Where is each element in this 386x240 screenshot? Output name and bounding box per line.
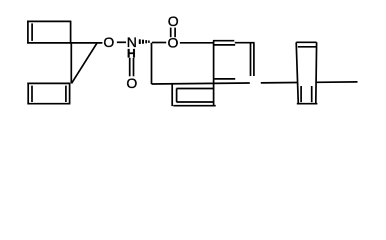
benzene right: top edge: [296, 41, 316, 43]
double bond C=O carbonyl: [170, 28, 172, 38]
benzene right: right edge: [315, 42, 318, 103]
cyclobutene ring top-left: left edge: [27, 21, 29, 43]
benzene right: inner top double line: [298, 46, 316, 48]
chemical structure drawing 386x124: [0, 0, 386, 124]
double bond inner right line, bottom-left ring: [65, 86, 67, 102]
bond stereocenter to ester O: [152, 42, 166, 44]
svg-text:O: O: [103, 34, 114, 50]
cyclobutadiene ring bottom-left: right edge: [69, 83, 71, 105]
wire diagonal bond: [72, 43, 97, 83]
wire long horizontal segment 3: [317, 81, 358, 83]
benzene right: left edge: [296, 42, 298, 103]
benzene right: inner vertical left: [300, 86, 302, 102]
double bond top line, middle ring: [213, 40, 234, 42]
double bond second line, middle ring: [214, 44, 235, 46]
cyclobutene ring top-left: right edge: [70, 21, 72, 43]
benzene right: bottom edge: [297, 103, 318, 105]
bond O1 to N: [117, 41, 126, 43]
wire long horizontal segment 2: [261, 82, 298, 84]
outer bottom line, bottom-middle ring: [173, 105, 215, 107]
cyclobutadiene ring bottom-left: top edge: [27, 82, 70, 84]
svg-text:O: O: [126, 75, 137, 91]
svg-text:H: H: [127, 47, 136, 61]
wire long horizontal segment 1: [152, 83, 250, 84]
double bond vertical pair: [250, 44, 252, 77]
wire vertical bond between rings: [70, 43, 72, 84]
wire vertical, middle ring: [213, 41, 215, 106]
benzene right: inner vertical right: [311, 86, 313, 102]
double bond inner left line, bottom-left ring: [31, 86, 33, 102]
hashed wedge bond N to stereocenter: [139, 39, 150, 44]
inner bottom line, bottom-middle ring: [176, 101, 213, 103]
double bond N to O2: [129, 58, 131, 77]
svg-text:O: O: [167, 34, 178, 50]
inner top line, bottom-middle ring: [176, 88, 213, 90]
bond stereocenter down: [151, 43, 153, 84]
svg-text:O: O: [168, 13, 179, 29]
cyclobutadiene ring bottom-left: left edge: [27, 83, 29, 105]
wire vertical left, bottom-middle ring: [171, 84, 173, 107]
cyclobutadiene ring bottom-left: bottom edge: [27, 103, 70, 105]
cyclobutene ring top-left: top edge: [27, 20, 71, 22]
inner vertical, bottom-middle ring: [176, 89, 178, 103]
bond ester O to middle ring: [180, 42, 214, 44]
bond single, upper middle: [235, 42, 255, 44]
double bond short line below vertex: [215, 78, 236, 80]
double bond inner line, top-left ring: [31, 23, 33, 41]
wire long horizontal through ring bottom to O: [27, 42, 102, 44]
